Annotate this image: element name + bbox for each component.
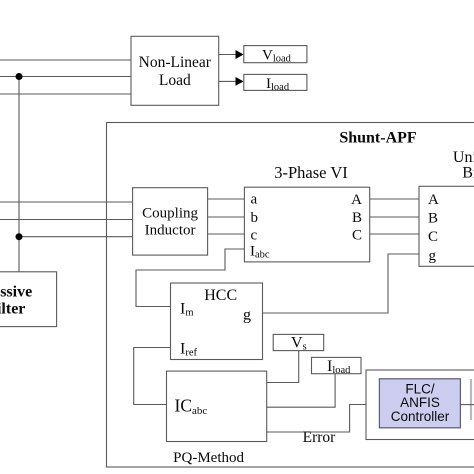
block sliver at right edge [470, 379, 472, 420]
svg-text:b: b [251, 210, 259, 226]
wire Iabc from 3-Phase VI to HCC Im [136, 249, 244, 307]
svg-text:B: B [428, 211, 438, 227]
block 3-Phase VI [244, 187, 369, 262]
wire phase-c to Non-Linear Load [0, 93, 131, 95]
block Vs sensor [273, 334, 324, 350]
wire 3-Phase VI C to Universal Bridge C [370, 233, 419, 235]
svg-text:Bridge: Bridge [462, 165, 474, 182]
wire arrow to Vload [219, 54, 236, 56]
block Vload [244, 46, 307, 63]
wire phase-a to Coupling Inductor [0, 201, 133, 203]
wire Coupling Inductor b to 3-Phase VI [208, 216, 245, 218]
svg-text:a: a [251, 192, 258, 208]
block FLC/ANFIS Controller inner [379, 379, 460, 428]
svg-text:Universal: Universal [453, 149, 474, 166]
svg-text:C: C [352, 228, 362, 244]
block Universal Bridge [419, 186, 474, 266]
wire Coupling Inductor c to 3-Phase VI [208, 233, 245, 235]
svg-text:C: C [428, 229, 438, 245]
wire Error from ICabc to FLC controller [267, 405, 366, 433]
svg-text:Inductor: Inductor [145, 223, 196, 239]
wire FLC inner output to right edge [460, 404, 474, 406]
wire phase-a to Non-Linear Load [0, 59, 131, 61]
svg-text:Coupling: Coupling [142, 206, 198, 222]
svg-text:A: A [351, 192, 362, 208]
wire Coupling Inductor a to 3-Phase VI [208, 198, 245, 200]
svg-text:g: g [243, 307, 251, 324]
svg-text:Controller: Controller [391, 409, 450, 424]
block FLC outer [366, 370, 474, 440]
svg-text:HCC: HCC [204, 287, 237, 304]
block ICabc [167, 371, 267, 441]
arrowhead to Iload [236, 77, 244, 86]
node junction dot on phase-c lower bus [16, 233, 23, 240]
wire arrow to Iload [219, 80, 236, 82]
block Non-Linear Load [131, 36, 219, 105]
svg-text:Error: Error [303, 429, 337, 446]
block Passive Filter [0, 272, 57, 327]
wire ICabc to Iload sensor [267, 374, 335, 408]
svg-text:g: g [429, 248, 437, 264]
svg-text:Non-Linear: Non-Linear [139, 54, 212, 71]
wire 3-Phase VI B to Universal Bridge B [370, 216, 419, 218]
wire ICabc to Vs [267, 351, 299, 383]
svg-text:A: A [428, 192, 439, 208]
shunt-APF enclosure box [107, 123, 474, 468]
wire phase-b to Non-Linear Load [0, 76, 131, 78]
block Coupling Inductor [133, 188, 208, 255]
block Iload sensor [312, 357, 362, 373]
node junction dot on phase-b bus [16, 73, 23, 80]
block HCC [171, 283, 263, 360]
svg-text:ANFIS: ANFIS [400, 395, 440, 410]
svg-text:Passive: Passive [0, 284, 32, 301]
svg-text:Load: Load [159, 72, 191, 89]
arrowhead to Vload [236, 50, 244, 59]
svg-text:3-Phase VI: 3-Phase VI [274, 163, 347, 182]
wire HCC g to Universal Bridge g [263, 254, 420, 313]
wire phase-c tap to Coupling Inductor [19, 236, 133, 238]
wire HCC Iref to ICabc [134, 348, 171, 405]
svg-text:B: B [352, 210, 362, 226]
svg-text:c: c [251, 228, 258, 244]
wire 3-Phase VI A to Universal Bridge A [370, 198, 419, 200]
svg-text:PQ-Method: PQ-Method [173, 450, 244, 466]
block Iload [244, 74, 307, 90]
wire vertical tap to Passive Filter [18, 77, 20, 273]
svg-text:Filter: Filter [0, 301, 25, 318]
svg-text:Shunt-APF: Shunt-APF [339, 130, 417, 147]
wire phase-b to Coupling Inductor [0, 219, 133, 221]
